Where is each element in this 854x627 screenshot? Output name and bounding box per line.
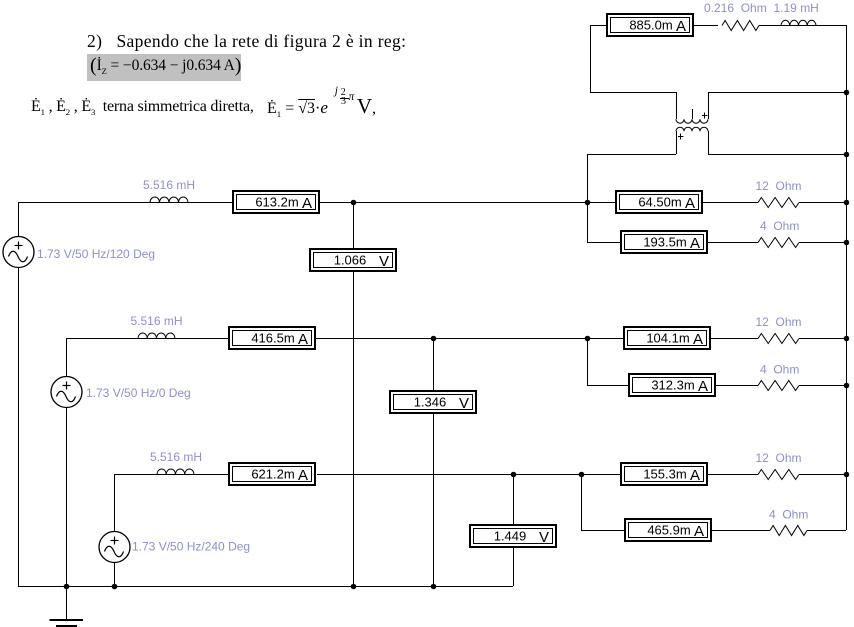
svg-text:1.73 V/50 Hz/120 Deg: 1.73 V/50 Hz/120 Deg — [37, 247, 155, 261]
svg-text:5.516 mH: 5.516 mH — [131, 314, 183, 328]
svg-text:104.1m: 104.1m — [646, 331, 689, 346]
svg-text:4 Ohm: 4 Ohm — [760, 363, 799, 377]
svg-text:A: A — [302, 195, 312, 212]
svg-text:416.5m: 416.5m — [251, 331, 294, 346]
svg-text:V: V — [539, 529, 549, 546]
svg-text:1.73 V/50 Hz/0 Deg: 1.73 V/50 Hz/0 Deg — [86, 386, 191, 400]
svg-text:A: A — [298, 467, 308, 484]
svg-text:4 Ohm: 4 Ohm — [760, 219, 799, 233]
svg-text:193.5m: 193.5m — [643, 235, 686, 250]
svg-text:A: A — [298, 331, 308, 348]
svg-text:885.0m: 885.0m — [629, 18, 672, 33]
svg-text:A: A — [698, 378, 708, 395]
svg-text:1.19 mH: 1.19 mH — [774, 1, 819, 15]
svg-text:1.449: 1.449 — [494, 529, 527, 544]
svg-text:V: V — [379, 253, 389, 270]
svg-text:A: A — [694, 523, 704, 540]
svg-text:12 Ohm: 12 Ohm — [756, 315, 802, 329]
svg-text:12 Ohm: 12 Ohm — [756, 179, 802, 193]
svg-text:64.50m: 64.50m — [638, 195, 681, 210]
svg-text:5.516 mH: 5.516 mH — [143, 178, 195, 192]
svg-text:A: A — [690, 467, 700, 484]
svg-text:1.066: 1.066 — [334, 253, 367, 268]
svg-text:0.216 Ohm: 0.216 Ohm — [704, 1, 767, 15]
svg-text:312.3m: 312.3m — [651, 378, 694, 393]
svg-text:613.2m: 613.2m — [255, 195, 298, 210]
svg-text:5.516 mH: 5.516 mH — [150, 450, 202, 464]
svg-text:4 Ohm: 4 Ohm — [769, 508, 808, 522]
svg-text:A: A — [693, 331, 703, 348]
svg-text:A: A — [676, 18, 686, 35]
svg-text:A: A — [690, 235, 700, 252]
svg-text:1.73 V/50 Hz/240 Deg: 1.73 V/50 Hz/240 Deg — [132, 540, 250, 554]
svg-text:A: A — [685, 195, 695, 212]
svg-text:12 Ohm: 12 Ohm — [756, 451, 802, 465]
svg-text:155.3m: 155.3m — [643, 467, 686, 482]
svg-text:465.9m: 465.9m — [647, 523, 690, 538]
svg-text:621.2m: 621.2m — [251, 467, 294, 482]
svg-text:V: V — [459, 395, 469, 412]
svg-text:1.346: 1.346 — [414, 395, 447, 410]
